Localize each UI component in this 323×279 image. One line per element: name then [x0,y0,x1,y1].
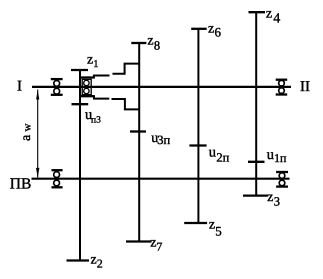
bearing B3 on shaft II (right) [276,80,288,95]
gear z8 top cap [131,42,146,44]
gear z6 top cap [191,28,207,30]
svg-text:u: u [267,147,274,163]
bearing B5 on shaft PV (right) [276,172,288,187]
svg-text:2: 2 [97,256,103,270]
svg-text:7: 7 [156,240,162,254]
svg-text:3п: 3п [157,133,170,147]
gear z5 bottom cap [184,222,207,224]
svg-text:4: 4 [273,12,280,27]
gear line z8/z7 (vertical) [138,43,140,242]
mesh tick z1/z2 [72,103,89,105]
mesh tick z4/z3 [248,161,265,163]
gear z4 top cap [249,11,266,13]
svg-text:u: u [209,145,216,161]
svg-text:I: I [17,78,22,94]
gear line z6/z5 (vertical) [197,29,199,223]
gear z3 bottom cap [243,194,268,196]
svg-text:п3: п3 [91,116,101,126]
gear line z4/z3 (vertical) [255,12,257,195]
gear z7 bottom cap [126,240,152,242]
svg-text:1п: 1п [274,151,287,165]
svg-text:z: z [209,218,215,233]
svg-text:a: a [19,134,34,141]
svg-text:z: z [267,190,273,205]
svg-text:z: z [91,253,97,268]
clutch upper profile (stepped line with dash) [94,64,139,79]
svg-text:5: 5 [215,223,222,238]
bearing B2 on gear z1 hub (boxed bearings) [81,78,95,97]
svg-text:z: z [266,7,272,22]
svg-text:ПВ: ПВ [10,176,32,193]
svg-text:2п: 2п [216,150,229,164]
mesh tick z8/z7 [130,130,146,132]
svg-text:1: 1 [93,59,98,70]
shaft I/II (top horizontal shaft line) [32,86,291,88]
gear z1 top cap [71,69,88,71]
dimension line a_w (double arrow between shafts) [36,90,39,178]
svg-text:6: 6 [215,25,222,40]
shaft PV (bottom horizontal shaft line) [32,178,290,180]
bearing B4 on shaft PV (left) [52,170,63,187]
gear z2 bottom cap [67,259,90,261]
svg-text:3: 3 [274,195,280,209]
bearing B1 on shaft I (left) [51,79,63,95]
svg-text:8: 8 [154,38,160,52]
clutch lower profile (stepped line with dash) [94,95,139,109]
svg-text:z: z [208,22,214,37]
svg-text:w: w [21,124,33,132]
svg-text:II: II [300,79,310,95]
gear line z1/z2 (vertical) [79,70,81,261]
svg-text:z: z [147,33,153,48]
mesh tick z6/z5 [189,144,206,146]
